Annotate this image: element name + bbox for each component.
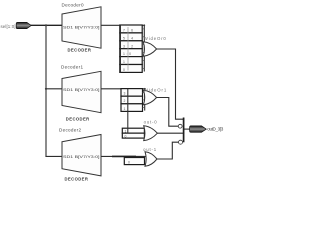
svg-text:1: 1 [124,107,126,111]
svg-text:2: 2 [124,99,126,103]
svg-text:out-0: out-0 [144,120,158,125]
svg-text:SD1 B[V7/Y3:0]: SD1 B[V7/Y3:0] [63,25,100,29]
svg-text:SD1 B[V7/Y3:0]: SD1 B[V7/Y3:0] [63,88,100,92]
svg-text:5:4: 5:4 [123,36,133,40]
svg-text:0: 0 [123,68,125,72]
svg-text:outD_3[3: outD_3[3 [207,127,223,132]
svg-text:1: 1 [123,60,125,64]
svg-text:1:0: 1:0 [123,52,131,56]
svg-text:7:6: 7:6 [123,29,133,33]
svg-text:WideOr0: WideOr0 [144,36,167,41]
svg-text:0: 0 [128,160,130,164]
svg-text:WideOr1: WideOr1 [144,88,167,93]
svg-text:DECODER: DECODER [68,48,92,53]
svg-text:out-1: out-1 [143,147,157,152]
svg-text:DECODER: DECODER [66,117,90,122]
svg-text:1: 1 [125,129,127,133]
svg-text:0: 0 [125,134,127,138]
svg-text:Decoder2: Decoder2 [59,127,81,132]
svg-text:3: 3 [124,92,126,96]
svg-text:sel[1:0]: sel[1:0] [1,24,16,29]
svg-text:3:2: 3:2 [123,44,133,48]
svg-text:Decoder0: Decoder0 [62,2,84,7]
svg-text:DECODER: DECODER [65,176,89,181]
svg-text:SD1 B[V7/Y3:0]: SD1 B[V7/Y3:0] [63,155,100,159]
svg-text:Decoder1: Decoder1 [61,64,83,69]
